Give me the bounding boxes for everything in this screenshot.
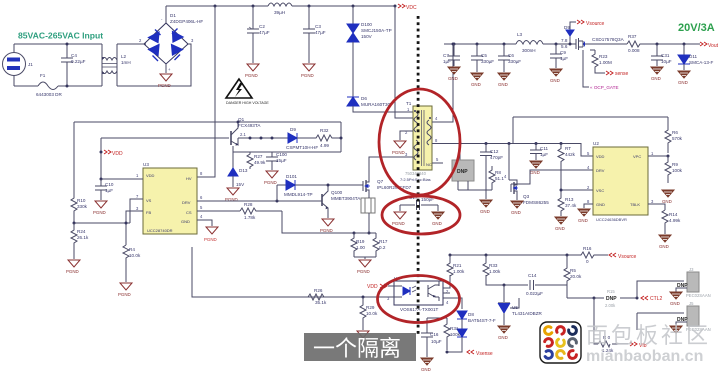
svg-text:570k: 570k (672, 136, 683, 141)
svg-text:VDD: VDD (596, 154, 605, 159)
svg-text:Vsense: Vsense (476, 351, 493, 357)
svg-text:R4: R4 (129, 247, 135, 252)
TVS D100 (352, 6, 354, 28)
resistor R24 (71, 223, 77, 246)
inductor L3 (516, 41, 543, 45)
wire VPC pin (648, 155, 668, 157)
svg-text:VS: VS (146, 198, 152, 203)
ground GND C16 (421, 358, 433, 365)
resistor R23 (592, 50, 598, 70)
svg-text:10.0k: 10.0k (366, 311, 378, 316)
svg-text:35.1k: 35.1k (315, 300, 327, 305)
svg-text:D13: D13 (239, 168, 248, 173)
resistor R8 (468, 166, 495, 190)
svg-text:mianbaoban.cn: mianbaoban.cn (586, 348, 703, 365)
wire R32 to VDD node (340, 122, 342, 152)
ground PGND Q100 (327, 212, 329, 218)
svg-text:15µF: 15µF (276, 158, 287, 163)
svg-text:PGND: PGND (66, 269, 79, 274)
wire TL431 cathode (503, 285, 505, 302)
svg-text:TL431AIDBZR: TL431AIDBZR (512, 311, 543, 316)
svg-text:J5: J5 (689, 301, 694, 306)
logo mianbaoban (540, 322, 581, 363)
svg-text:0.22µF: 0.22µF (71, 59, 86, 64)
svg-text:MMBT3904TA: MMBT3904TA (331, 196, 361, 201)
svg-text:C2: C2 (259, 24, 265, 29)
wire Q3 source (516, 196, 518, 200)
wire VDC top rail (166, 5, 395, 7)
highlight ellipse transformer (379, 89, 460, 195)
capacitor C14 (530, 280, 534, 290)
resistor RT (558, 144, 564, 166)
zener D11 (683, 44, 685, 55)
svg-text:GND: GND (448, 76, 458, 81)
svg-text:RT: RT (565, 146, 571, 151)
svg-text:GND: GND (659, 244, 669, 249)
IC U2 UCC24636DBVR (593, 141, 648, 222)
svg-text:C12: C12 (490, 149, 499, 154)
svg-text:PGND: PGND (158, 83, 171, 88)
svg-text:R15: R15 (607, 289, 615, 294)
resistor R17 (373, 233, 379, 257)
wire T1 primary bottom to Q7 drain (369, 157, 413, 179)
resistor R31 (444, 322, 450, 350)
svg-text:C9: C9 (560, 50, 566, 55)
ground GND C17 (432, 212, 444, 219)
transformer T1 (413, 106, 432, 170)
resistor R10 (71, 122, 77, 213)
capacitor C5 (471, 44, 483, 72)
ground GND C6 (498, 73, 510, 80)
svg-text:Q100: Q100 (331, 190, 343, 195)
ground PGND bridge (160, 74, 172, 81)
svg-text:4.99k: 4.99k (669, 218, 681, 223)
svg-text:DRV: DRV (182, 200, 191, 205)
svg-text:GND: GND (670, 301, 680, 306)
svg-text:TBLK: TBLK (630, 202, 640, 207)
svg-text:VDC: VDC (406, 5, 417, 11)
svg-text:Q1: Q1 (238, 117, 245, 122)
svg-text:U5: U5 (512, 305, 518, 310)
net label CTL2 (641, 296, 648, 300)
resistor R26 (308, 294, 324, 300)
ground GND C5 (471, 73, 483, 80)
svg-text:PGND: PGND (118, 292, 131, 297)
svg-text:1.00k: 1.00k (489, 269, 501, 274)
wire bridge bottom (165, 64, 167, 73)
ground GND R9 (662, 190, 674, 197)
svg-text:PGND: PGND (264, 180, 277, 185)
svg-text:1.00: 1.00 (356, 245, 365, 250)
resistor R32 (297, 135, 341, 141)
svg-text:C16: C16 (430, 332, 439, 337)
wire gate OCP (583, 50, 589, 87)
caption box isolation (304, 333, 416, 361)
svg-text:C10: C10 (105, 182, 114, 187)
svg-text:Q3: Q3 (523, 194, 530, 199)
svg-text:GND: GND (498, 335, 508, 340)
svg-text:2.00k: 2.00k (605, 303, 616, 308)
ground GND R13 (555, 217, 567, 224)
wire line-sense rail (74, 121, 341, 123)
connector J5 DNP (687, 306, 699, 326)
svg-text:GND: GND (498, 82, 508, 87)
svg-text:DANGER HIGH VOLTAGE: DANGER HIGH VOLTAGE (226, 101, 269, 105)
svg-text:Z4DGP406L-HF: Z4DGP406L-HF (170, 19, 203, 24)
connector J3 DNP (687, 272, 699, 292)
ground GND C12 (480, 200, 492, 207)
svg-text:GND: GND (662, 199, 672, 204)
svg-text:U2: U2 (593, 141, 599, 146)
svg-text:10µF: 10µF (661, 59, 672, 64)
svg-text:R23: R23 (599, 54, 608, 59)
svg-text:R37: R37 (628, 34, 637, 39)
svg-text:Vsource: Vsource (618, 254, 637, 260)
ground GND J3 (670, 292, 682, 299)
wire aux VDD bus (233, 151, 341, 153)
capacitor C31 (651, 44, 663, 66)
capacitor C4 (61, 44, 73, 86)
transistor Q1 FCX493TA (231, 121, 240, 146)
svg-text:6443003 DR: 6443003 DR (36, 92, 62, 97)
resistor R19 (351, 233, 357, 257)
shunt regulator U5 TL431 (498, 298, 519, 325)
diode D6 MURA160T3G (347, 97, 359, 106)
svg-text:D100: D100 (361, 22, 372, 27)
svg-text:D1: D1 (170, 13, 176, 18)
ground PGND C2 (247, 64, 259, 71)
svg-text:R29: R29 (366, 305, 375, 310)
svg-text:GND: GND (550, 78, 560, 83)
svg-text:C7: C7 (443, 53, 449, 58)
svg-text:7.8: 7.8 (561, 38, 568, 43)
svg-text:VPC: VPC (633, 154, 641, 159)
highlight ellipse optocoupler (378, 276, 460, 323)
svg-text:Vout: Vout (708, 43, 718, 49)
wire to Q7 gate (295, 184, 360, 186)
wire input top (14, 43, 102, 45)
svg-text:J3: J3 (689, 267, 694, 272)
net label sense (595, 70, 605, 73)
svg-text:100k: 100k (450, 332, 461, 337)
highlight ellipse Y-capacitor (382, 196, 460, 234)
ground PGND T1 (394, 141, 406, 148)
wire FB pin (126, 211, 143, 245)
wire Vsense network (485, 275, 487, 285)
resistor R37 (627, 41, 642, 47)
svg-text:0.022µF: 0.022µF (526, 291, 543, 296)
svg-text:DRV: DRV (596, 168, 605, 173)
svg-text:1µF: 1µF (540, 152, 548, 157)
component DNP box secondary (459, 144, 461, 161)
wire CTL row1 (567, 281, 594, 298)
resistor R13 (558, 196, 564, 213)
net label VDD primary (104, 150, 111, 154)
svg-text:GND: GND (480, 209, 490, 214)
transistor Q3 FDMS86255 (509, 144, 518, 197)
resistor R5 (564, 255, 570, 294)
svg-text:39µH: 39µH (274, 10, 285, 15)
wire bridge top to rail (165, 6, 167, 23)
wire choke to bridge (117, 44, 191, 86)
resistor R28 (240, 208, 282, 214)
svg-text:R16: R16 (583, 246, 592, 251)
svg-text:GND: GND (578, 218, 588, 223)
ground PGND C100 (266, 171, 278, 178)
svg-text:UCC24636DBVR: UCC24636DBVR (596, 217, 627, 222)
svg-text:R17: R17 (379, 239, 388, 244)
svg-text:D11: D11 (689, 54, 698, 59)
bridge rectifier D1 (139, 17, 194, 72)
svg-text:L3: L3 (517, 32, 523, 37)
svg-text:1.00k: 1.00k (453, 269, 465, 274)
svg-text:442k: 442k (565, 152, 576, 157)
wire opto emitter (443, 298, 462, 309)
svg-text:7:2.5Pri:Sec:Bias: 7:2.5Pri:Sec:Bias (400, 177, 431, 182)
svg-text:PGND: PGND (392, 221, 405, 226)
svg-text:47µF: 47µF (259, 30, 270, 35)
ground GND D11 (678, 71, 690, 78)
svg-text:SMCA-13-F: SMCA-13-F (689, 60, 713, 65)
net label Vsense (446, 351, 448, 353)
svg-text:330µF: 330µF (508, 59, 521, 64)
svg-text:PEC02SAAN: PEC02SAAN (686, 293, 711, 298)
svg-text:R5: R5 (570, 268, 576, 273)
svg-text:Q7: Q7 (377, 179, 384, 184)
fuse F1 (38, 82, 58, 90)
svg-text:1µF: 1µF (105, 188, 113, 193)
svg-text:PGND: PGND (245, 73, 258, 78)
ground PGND C10 (95, 201, 107, 208)
svg-text:Vsource: Vsource (586, 21, 605, 27)
svg-text:PGND: PGND (320, 228, 333, 233)
svg-text:85VAC-265VAC Input: 85VAC-265VAC Input (18, 31, 103, 41)
svg-text:R10: R10 (77, 198, 86, 203)
svg-text:15V: 15V (236, 182, 245, 187)
capacitor C7 (448, 44, 460, 66)
ground PGND R4 (120, 283, 132, 290)
svg-text:GND: GND (421, 367, 431, 372)
svg-text:PGND: PGND (204, 237, 217, 242)
svg-text:R31: R31 (450, 326, 459, 331)
wire secondary pin4 to rail (432, 44, 453, 122)
svg-text:R13: R13 (565, 197, 574, 202)
ground GND Q3 (511, 201, 523, 208)
wire HV vertical (197, 6, 215, 177)
connector J1 AC plug (3, 44, 26, 86)
svg-text:C6: C6 (508, 53, 514, 58)
wire R26 feedback (192, 247, 391, 297)
resistor R29 (360, 297, 366, 330)
svg-text:sense: sense (615, 71, 629, 77)
isolation barrier dotted line (417, 16, 420, 334)
svg-text:一个隔离: 一个隔离 (313, 336, 401, 361)
resistor R18 sense box (361, 198, 375, 213)
svg-text:SMCJ150A-TP: SMCJ150A-TP (361, 28, 392, 33)
svg-text:51.1: 51.1 (495, 176, 504, 181)
svg-text:R21: R21 (453, 263, 462, 268)
wire CS line (197, 210, 240, 212)
wire CS to sense resistors (282, 211, 354, 233)
wire to header J3 (637, 281, 684, 298)
svg-text:« OCP_GATE: « OCP_GATE (590, 85, 619, 90)
zener D13 (232, 146, 234, 168)
svg-text:PGND: PGND (93, 210, 106, 215)
svg-text:R9: R9 (672, 162, 678, 167)
svg-text:C3: C3 (315, 24, 321, 29)
svg-text:GND: GND (432, 221, 442, 226)
ground PGND U3 (197, 220, 212, 226)
wire VDD pin (101, 138, 143, 179)
resistor R6 (665, 117, 671, 153)
inductor L2 common-mode choke (102, 44, 117, 60)
svg-text:R28: R28 (244, 202, 253, 207)
svg-text:20.0k: 20.0k (570, 274, 582, 279)
wire C16 R31 node (427, 318, 462, 352)
svg-text:C100: C100 (276, 152, 287, 157)
svg-text:MMDL914-TP: MMDL914-TP (284, 192, 313, 197)
capacitor C2 (247, 6, 259, 63)
svg-text:D101: D101 (286, 174, 297, 179)
svg-text:R27: R27 (254, 154, 263, 159)
diode D9 CSPMT (288, 133, 297, 143)
zener D9 gate (566, 30, 574, 36)
svg-text:1mH: 1mH (121, 60, 131, 65)
svg-text:37.4k: 37.4k (565, 203, 577, 208)
wire Q3 gate from DRV (511, 170, 593, 184)
ground GND C7 (448, 67, 460, 74)
svg-text:R33: R33 (489, 263, 498, 268)
wire input bottom (14, 85, 102, 87)
wire VDD rail (101, 137, 229, 139)
svg-text:GND: GND (596, 202, 605, 207)
capacitor C100 (266, 152, 278, 170)
svg-text:HV: HV (186, 176, 192, 181)
svg-text:GND: GND (678, 80, 688, 85)
svg-text:20V/3A: 20V/3A (678, 22, 715, 34)
resistor R38 (598, 341, 610, 347)
svg-text:0.2: 0.2 (379, 245, 386, 250)
ground PGND sense (354, 257, 376, 259)
svg-text:330k: 330k (77, 204, 88, 209)
svg-text:1µF: 1µF (560, 56, 568, 61)
svg-text:MURA160T3G: MURA160T3G (361, 102, 392, 107)
danger high voltage triangle (226, 79, 252, 98)
svg-text:0: 0 (586, 259, 589, 264)
svg-text:VDD: VDD (146, 173, 155, 178)
svg-text:R19: R19 (356, 239, 365, 244)
net label Vsource top (570, 22, 576, 44)
svg-text:IPL60R2WCFD7: IPL60R2WCFD7 (377, 185, 412, 190)
IC U3 UCC28740DR (143, 162, 197, 234)
svg-text:U3: U3 (143, 162, 149, 167)
svg-text:10.0k: 10.0k (129, 253, 141, 258)
net label Vsource mid (609, 253, 616, 257)
wire opto collector (443, 275, 450, 288)
wire to header J5 (637, 313, 684, 330)
capacitor C17 barrier (400, 200, 438, 210)
transistor Q7 MOSFET (360, 179, 370, 193)
ground PGND D13 (227, 188, 239, 195)
ground PGND C17 (394, 212, 406, 219)
capacitor C9 (550, 44, 562, 68)
svg-text:D9: D9 (564, 25, 570, 30)
wire Vsource feedback rail (450, 254, 581, 256)
svg-text:FDMS86255: FDMS86255 (523, 200, 549, 205)
capacitor C3 (303, 6, 315, 63)
svg-text:C5: C5 (481, 53, 487, 58)
svg-text:DNP: DNP (606, 296, 617, 302)
wire CTL row2 (594, 298, 628, 344)
wire VDC to T1 (395, 6, 413, 118)
capacitor C12 (480, 144, 492, 200)
svg-text:R8: R8 (495, 170, 501, 175)
svg-text:0.008: 0.008 (628, 48, 640, 53)
resistor R27 (247, 152, 253, 169)
svg-text:C31: C31 (661, 53, 670, 58)
svg-text:GND: GND (530, 170, 540, 175)
net label VDC (398, 4, 405, 8)
wire T1 shield pin to PGND (400, 131, 413, 140)
svg-text:330µF: 330µF (481, 59, 494, 64)
inductor L1 39uH (268, 3, 292, 6)
ground GND C31 (651, 67, 663, 74)
svg-text:R6: R6 (672, 130, 678, 135)
wire R16 junction vertical (580, 254, 582, 256)
svg-text:DNP: DNP (457, 169, 468, 175)
resistor R16 (581, 252, 608, 258)
ground PGND R24 (68, 260, 80, 267)
capacitor C10 (95, 179, 107, 200)
wire DRV line (197, 200, 322, 202)
svg-text:2.1: 2.1 (240, 132, 246, 137)
svg-text:49.9k: 49.9k (254, 160, 266, 165)
svg-text:R26: R26 (314, 288, 323, 293)
wire C14 node (486, 281, 567, 285)
resistor R4 (123, 245, 129, 262)
svg-text:470pF: 470pF (490, 155, 503, 160)
ground GND U5 (498, 326, 510, 333)
svg-text:VSC: VSC (596, 188, 604, 193)
svg-text:PGND: PGND (392, 150, 405, 155)
svg-text:VDD: VDD (367, 284, 378, 290)
svg-text:CSD17578Q3A: CSD17578Q3A (592, 37, 625, 42)
svg-text:100k: 100k (672, 168, 683, 173)
svg-text:NC: NC (426, 162, 432, 167)
svg-text:R24: R24 (77, 229, 86, 234)
svg-text:L2: L2 (121, 54, 127, 59)
svg-text:面包板社区: 面包板社区 (586, 323, 711, 348)
ground PGND R29 (357, 331, 369, 338)
svg-text:F1: F1 (40, 73, 46, 78)
svg-text:CSPMT10H-HF: CSPMT10H-HF (286, 145, 318, 150)
svg-text:C4: C4 (71, 53, 77, 58)
svg-text:T1: T1 (406, 101, 412, 106)
svg-text:1.00M: 1.00M (599, 60, 612, 65)
diode D101 (286, 180, 295, 190)
svg-text:C14: C14 (528, 273, 537, 278)
svg-text:300nH: 300nH (522, 48, 536, 53)
ground GND R14 (659, 235, 671, 242)
svg-text:150V: 150V (361, 34, 373, 39)
ground PGND C3 (303, 64, 315, 71)
svg-text:5.6: 5.6 (561, 44, 568, 49)
svg-text:GND: GND (181, 219, 190, 224)
wire D101 branch (276, 185, 278, 201)
svg-text:R32: R32 (320, 128, 329, 133)
resistor R9 (665, 156, 671, 183)
transistor Q2 CSD17578Q3A (575, 38, 590, 50)
